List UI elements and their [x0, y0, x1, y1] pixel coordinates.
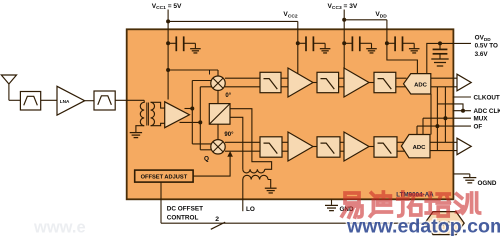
svg-text:0.5V TO: 0.5V TO — [475, 43, 498, 50]
svg-text:DC OFFSET: DC OFFSET — [167, 205, 203, 212]
svg-text:LNA: LNA — [60, 99, 70, 104]
svg-text:ADC: ADC — [413, 145, 427, 151]
svg-text:OFFSET ADJUST: OFFSET ADJUST — [141, 175, 188, 181]
svg-text:ADC: ADC — [414, 82, 428, 88]
svg-text:0°: 0° — [225, 93, 231, 99]
svg-text:LO: LO — [246, 206, 255, 213]
svg-text:I: I — [209, 70, 211, 77]
svg-text:www.e: www.e — [33, 219, 86, 237]
svg-text:MUX: MUX — [474, 116, 489, 123]
svg-text:90°: 90° — [224, 132, 234, 138]
svg-text:ADC CLK: ADC CLK — [474, 108, 500, 115]
svg-text:OGND: OGND — [478, 180, 497, 187]
svg-text:3.6V: 3.6V — [475, 51, 489, 58]
svg-text:CONTROL: CONTROL — [167, 214, 199, 221]
svg-text:2: 2 — [215, 216, 219, 223]
svg-text:OF: OF — [474, 124, 483, 131]
svg-text:www.edatop.com: www.edatop.com — [346, 215, 500, 236]
svg-text:CLKOUT: CLKOUT — [474, 94, 500, 101]
svg-text:Q: Q — [204, 156, 209, 163]
